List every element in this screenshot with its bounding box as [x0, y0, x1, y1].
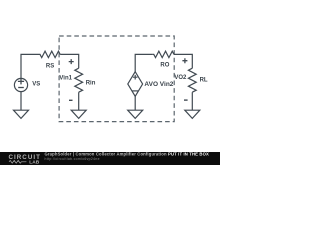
wire diamond top to RO: [135, 54, 152, 71]
wire Rin to ground: [78, 92, 80, 110]
wire VS top to RS: [21, 54, 39, 78]
svg-text:VS: VS: [32, 82, 40, 88]
minus sign node Vin1: [69, 99, 73, 101]
ground under RL: [185, 110, 200, 118]
VS plus mark: [18, 78, 24, 84]
wire RS to node Vin1: [60, 54, 79, 68]
wire diamond bottom to ground: [134, 96, 136, 110]
voltage source VS: [14, 78, 27, 91]
svg-text:Vin1: Vin1: [59, 75, 72, 81]
resistor RS: [39, 51, 61, 57]
svg-text:VO2: VO2: [174, 75, 187, 81]
logo CIRCUIT LAB: [9, 154, 41, 166]
svg-text:AVO Vin2: AVO Vin2: [144, 81, 173, 88]
resistor Rin: [75, 68, 83, 92]
labels: [32, 63, 208, 88]
dependent source minus mark: [132, 90, 138, 92]
dependent source plus mark: [133, 75, 138, 80]
ground under VS: [14, 110, 29, 118]
wire VS bottom to ground: [20, 92, 22, 111]
minus sign node VO2: [184, 99, 188, 101]
svg-text:http://circuitlab.com/c6vp24ne: http://circuitlab.com/c6vp24ne: [45, 157, 100, 161]
VS minus mark: [18, 87, 24, 89]
svg-text:RL: RL: [200, 78, 208, 84]
ground under diamond: [128, 110, 143, 118]
svg-text:RO: RO: [160, 63, 169, 69]
footer bar: [0, 152, 220, 165]
svg-text:Rin: Rin: [86, 80, 96, 86]
plus sign node VO2: [182, 58, 187, 63]
resistor RO: [152, 51, 174, 57]
wire RL to ground: [191, 92, 193, 110]
plus sign node Vin1: [69, 59, 74, 64]
dashed amplifier model box: [59, 36, 174, 122]
resistor RL: [188, 68, 196, 92]
svg-text:RS: RS: [46, 64, 54, 70]
dependent source AVO Vin2 (diamond): [128, 72, 143, 97]
ground under Rin: [71, 110, 86, 118]
wire RO to node VO2 / RL: [174, 54, 192, 68]
svg-text:LAB: LAB: [29, 160, 39, 165]
svg-text:GraphSolder | Common Collector: GraphSolder | Common Collector Amplifier…: [45, 152, 209, 157]
